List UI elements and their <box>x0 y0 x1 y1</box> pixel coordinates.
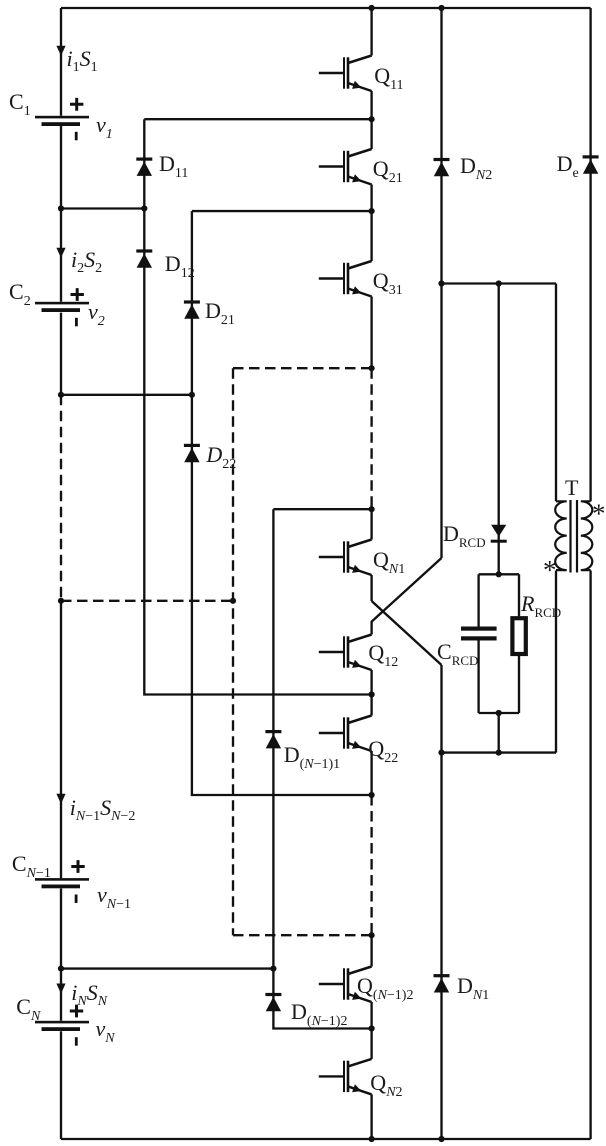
wire dashed omitted transistors <box>370 368 372 509</box>
svg-text:CRCD: CRCD <box>437 639 478 668</box>
svg-text:D11: D11 <box>159 151 188 181</box>
wire Q12-Q22 link <box>370 695 372 716</box>
capacitor CN <box>35 1021 89 1031</box>
svg-text:iN−1SN−2: iN−1SN−2 <box>70 795 136 824</box>
svg-text:iNSN: iNSN <box>71 980 107 1009</box>
svg-text:CN: CN <box>16 994 41 1024</box>
wire left rail upper <box>60 8 62 395</box>
svg-text:i2S2: i2S2 <box>71 247 102 276</box>
svg-text:v2: v2 <box>88 299 105 329</box>
wire C(N-1) to D(N-1) node <box>61 967 273 969</box>
wire right rail upper <box>589 8 591 501</box>
C1 minus tick <box>75 132 78 141</box>
diode D12 <box>136 249 152 267</box>
wire CRCD bottom lead <box>477 641 479 714</box>
wire D21 top to Q21 emitter node <box>192 210 372 212</box>
wire right rail lower <box>589 571 591 1140</box>
svg-text:C2: C2 <box>9 279 31 309</box>
node top bus / DN2 <box>438 5 444 11</box>
svg-text:Q31: Q31 <box>373 268 403 298</box>
svg-text:DN2: DN2 <box>460 153 492 183</box>
node RC box top <box>496 571 502 577</box>
CN-1 minus tick <box>75 895 78 904</box>
node RC tap bottom <box>496 750 502 756</box>
wire dashed box left edge <box>232 368 234 935</box>
node RC box bottom <box>496 710 502 716</box>
wire RRCD top lead <box>518 574 520 616</box>
transistor Q(N-1)2 <box>319 967 372 1003</box>
wire RC box bottom <box>479 712 519 714</box>
svg-text:D12: D12 <box>165 251 195 281</box>
node QN2 emitter bottom bus <box>369 1136 375 1142</box>
wire D(N-1) column down to QN2 collector node <box>273 509 371 1028</box>
node top bus / Q11 <box>369 5 375 11</box>
wire QN2 collector up <box>370 1029 372 1059</box>
capacitor C2 <box>35 302 89 312</box>
node left rail v1 <box>58 205 64 211</box>
svg-text:De: De <box>557 151 579 181</box>
wire Q31 collector up <box>370 211 372 261</box>
wire DN2 column <box>440 8 442 284</box>
wire Q(N-1)2 emitter down <box>370 1002 372 1029</box>
wire DN1 column <box>440 665 442 1139</box>
wire top bus <box>61 7 591 9</box>
wire dashed box bottom edge <box>233 934 372 936</box>
wire C2 to D21 node <box>61 394 192 396</box>
diode D22 <box>184 444 200 462</box>
svg-text:DN1: DN1 <box>457 973 489 1003</box>
node Q11-Q21 <box>369 116 375 122</box>
wire snubber bottom link <box>442 751 557 753</box>
svg-text:Q(N−1)2: Q(N−1)2 <box>357 973 413 1003</box>
wire dashed tap at level N-2 <box>61 600 233 602</box>
wire QN1 collector up <box>370 509 372 539</box>
diode D11 <box>136 158 152 176</box>
node Q(N-1)2-QN2 <box>369 1025 375 1031</box>
wire QN1 emitter cross to snubber rail <box>372 601 442 665</box>
node DN1 bottom bus <box>438 1136 444 1142</box>
node snubber top left <box>438 280 444 286</box>
capacitor CN-1 <box>35 878 89 888</box>
wire RC box tap down <box>498 713 500 753</box>
wire DRCD column <box>498 284 500 575</box>
node QN1 collector <box>369 506 375 512</box>
node D(N-1)1 bottom <box>270 966 276 972</box>
current arrow iN-1 <box>56 794 65 804</box>
diode D(N-1)1 <box>265 730 281 748</box>
wire Q31 emitter down <box>370 297 372 369</box>
wire Q(N-1)2 collector up <box>370 935 372 966</box>
transistor QN2 <box>319 1059 372 1095</box>
transformer T core <box>571 500 578 573</box>
wire C1 to D11 node <box>61 207 144 209</box>
svg-text:vN: vN <box>96 1016 116 1046</box>
diode D(N-1)2 <box>265 993 281 1011</box>
transformer T primary winding <box>555 501 567 570</box>
svg-text:D21: D21 <box>205 298 235 328</box>
wire RC box top <box>479 573 519 575</box>
wire Q22 emitter down <box>370 751 372 795</box>
node Q12-Q22 <box>369 691 375 697</box>
capacitor C1 <box>35 116 89 126</box>
svg-text:T: T <box>565 475 579 500</box>
wire DN2 node down <box>440 284 442 559</box>
diode D21 <box>184 300 200 318</box>
resistor RRCD <box>512 618 525 654</box>
svg-text:QN1: QN1 <box>373 547 405 577</box>
svg-text:Q22: Q22 <box>368 736 398 766</box>
node left rail vN-2 <box>58 598 64 604</box>
wire Q21 emitter down <box>370 185 372 212</box>
svg-text:CN−1: CN−1 <box>12 851 51 881</box>
current arrow i1 <box>56 46 65 56</box>
current arrow iN <box>56 984 65 994</box>
node DRCD top <box>496 280 502 286</box>
svg-text:DRCD: DRCD <box>443 521 486 550</box>
node Q31 emitter dashed box <box>369 365 375 371</box>
node left rail vN-1 <box>58 966 64 972</box>
wire Q12 emitter down <box>370 670 372 695</box>
svg-text:*: * <box>543 555 557 585</box>
node D21 bottom <box>189 392 195 398</box>
svg-text:C1: C1 <box>9 89 31 119</box>
C1 plus sign <box>70 98 83 111</box>
wire D11 top to Q11 emitter node <box>144 118 371 120</box>
wire left rail dashed middle <box>60 395 62 601</box>
CN plus sign <box>70 1005 83 1018</box>
wire transformer primary bottom lead <box>555 571 557 753</box>
node Q21-Q31 <box>369 208 375 214</box>
svg-text:vN−1: vN−1 <box>97 882 131 912</box>
svg-text:Q12: Q12 <box>368 640 398 670</box>
wire left rail lower <box>60 601 62 1139</box>
wire dashed box top edge <box>233 367 372 369</box>
svg-text:D(N−1)2: D(N−1)2 <box>291 999 347 1029</box>
wire CRCD top lead <box>477 574 479 626</box>
node D11 bottom <box>141 205 147 211</box>
diode DRCD <box>491 525 507 543</box>
node left rail v2 <box>58 392 64 398</box>
svg-text:D22: D22 <box>205 442 236 472</box>
svg-text:D(N−1)1: D(N−1)1 <box>284 742 340 772</box>
wire D11-D12 column down to Q12 emitter <box>144 119 371 694</box>
svg-text:v1: v1 <box>96 112 113 142</box>
wire QN2 emitter to bottom bus <box>370 1094 372 1139</box>
wire D21-D22 column down to Q22 emitter <box>192 211 372 795</box>
wire snubber rail cross to Q12 collector <box>372 558 442 635</box>
C2 plus sign <box>71 288 84 301</box>
capacitor CRCD <box>461 627 497 641</box>
wire RRCD bottom lead <box>518 656 520 713</box>
transistor Q21 <box>319 149 372 185</box>
svg-text:*: * <box>592 499 606 529</box>
transistor Q12 <box>319 635 372 671</box>
diode DN1 <box>434 974 450 992</box>
svg-text:Q21: Q21 <box>373 156 403 186</box>
transistor QN1 <box>319 540 372 576</box>
svg-text:QN2: QN2 <box>370 1070 402 1100</box>
C2 minus tick <box>75 318 78 327</box>
node Q22 emitter <box>369 792 375 798</box>
diode De <box>583 155 599 173</box>
svg-text:Q11: Q11 <box>374 63 403 93</box>
wire Q11 collector to top bus <box>370 8 372 56</box>
transistor Q31 <box>319 261 372 297</box>
transistor Q22 <box>319 716 372 752</box>
wire dashed omitted transistors lower <box>370 795 372 935</box>
node dashed tap <box>230 598 236 604</box>
wire transformer primary top lead <box>555 284 557 502</box>
CN-1 plus sign <box>71 860 84 873</box>
wire QN1 collector node to D(N-1)1 <box>273 508 371 510</box>
node Q(N-1)2 collector dashed box <box>369 932 375 938</box>
wire QN1 emitter down <box>370 575 372 601</box>
transformer T secondary winding <box>581 501 593 570</box>
current arrow i2 <box>56 248 65 258</box>
wire Q21 collector up <box>370 119 372 149</box>
wire snubber top link <box>442 282 557 284</box>
CN minus tick <box>75 1037 78 1046</box>
wire bottom bus <box>61 1138 591 1140</box>
wire Q11 emitter down <box>370 91 372 119</box>
diode DN2 <box>434 158 450 176</box>
node snubber bottom left <box>438 750 444 756</box>
svg-text:i1S1: i1S1 <box>67 46 98 75</box>
transistor Q11 <box>319 56 372 92</box>
